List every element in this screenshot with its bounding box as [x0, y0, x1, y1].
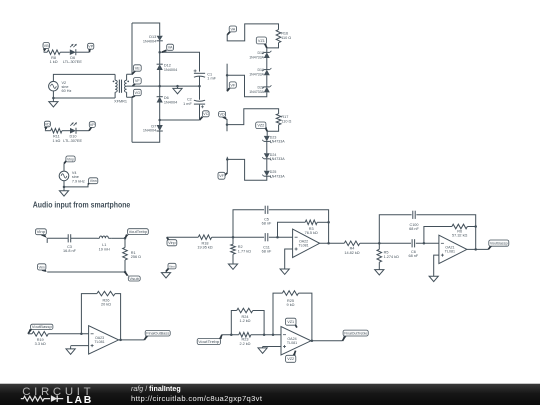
svg-text:VE: VE: [135, 66, 141, 70]
LED D6: [63, 44, 82, 64]
wire: [226, 119, 228, 131]
net flag Vinn (filter): [38, 264, 48, 272]
svg-text:VZ2: VZ2: [287, 357, 294, 361]
wire: [60, 51, 70, 53]
diode D6 (bridge): [157, 96, 178, 104]
wire: [379, 215, 411, 244]
capacitor C2: [183, 98, 205, 109]
wire: [266, 75, 268, 87]
svg-text:LAB: LAB: [67, 395, 93, 405]
wire: [48, 333, 88, 335]
svg-text:68 nF: 68 nF: [262, 222, 272, 226]
net flag VoutBassp: [488, 240, 509, 249]
svg-text:R19: R19: [37, 338, 44, 342]
svg-text:1 mF: 1 mF: [207, 77, 216, 81]
op-amp OA24: [281, 327, 311, 355]
node junction: [232, 236, 235, 239]
resistor R26: [97, 291, 115, 306]
net flag Vinn (stage): [166, 263, 176, 271]
inductor L1: [97, 236, 111, 251]
wire: [253, 311, 264, 335]
svg-text:76.5 kΩ: 76.5 kΩ: [305, 231, 318, 235]
svg-text:Vinn: Vinn: [90, 179, 97, 183]
resistor R25: [282, 291, 298, 307]
wire: [299, 293, 312, 341]
wire: [251, 334, 281, 336]
ground: [59, 187, 68, 196]
wire: [266, 58, 268, 70]
svg-text:1.274 kΩ: 1.274 kΩ: [384, 255, 399, 259]
net flag VD (zener row 2): [219, 111, 227, 120]
svg-text:TL081: TL081: [298, 243, 308, 247]
node junction: [423, 242, 426, 245]
svg-text:VP: VP: [90, 123, 96, 127]
node junction: [198, 85, 201, 88]
svg-text:VP: VP: [88, 45, 94, 49]
svg-text:VoutBassp: VoutBassp: [490, 241, 508, 245]
zener diode D19: [249, 68, 271, 77]
wire: [159, 41, 161, 64]
svg-text:VC: VC: [203, 112, 209, 116]
node junction: [52, 97, 55, 100]
capacitor C1: [194, 69, 217, 80]
footer bar with CircuitLab logo and url: [0, 383, 540, 405]
wire: [266, 159, 268, 171]
net flag VF (zener row 2): [218, 172, 227, 179]
wire: [132, 23, 160, 36]
wire: [233, 210, 264, 237]
net flag VZ1 (supply): [285, 318, 297, 327]
wire: [231, 311, 236, 335]
wire: [44, 51, 48, 53]
resistor R8: [47, 50, 60, 64]
svg-text:VD: VD: [45, 122, 51, 126]
wire: [378, 243, 380, 249]
net flag VB: [43, 43, 49, 53]
node junction: [272, 333, 275, 336]
wire: [28, 333, 32, 335]
wire: [71, 345, 89, 347]
zener diode D20: [249, 85, 271, 94]
node junction: [124, 271, 127, 274]
resistor R11: [51, 128, 62, 142]
svg-text:rafg / finalInteg: rafg / finalInteg: [131, 385, 181, 393]
zener diode D25: [262, 170, 285, 178]
resistor R2: [231, 244, 251, 254]
capacitor C5: [262, 206, 272, 226]
svg-text:1 mF: 1 mF: [183, 102, 192, 106]
svg-text:XFMR1: XFMR1: [114, 99, 127, 103]
diode D12: [157, 64, 178, 72]
svg-text:1N4004: 1N4004: [164, 101, 177, 105]
node junction: [276, 236, 279, 239]
wire: [76, 51, 90, 53]
svg-text:16.8 nF: 16.8 nF: [63, 249, 77, 253]
svg-text:256 Ω: 256 Ω: [131, 255, 141, 259]
net flag VP: [88, 43, 94, 52]
svg-text:2.2 kΩ: 2.2 kΩ: [239, 342, 250, 346]
wire: [378, 262, 380, 269]
resistor R5: [377, 249, 399, 262]
op-amp OA22: [293, 229, 320, 257]
svg-text:Vinn: Vinn: [169, 265, 175, 269]
wire: [159, 70, 161, 97]
svg-text:VD: VD: [219, 113, 225, 117]
wire: [62, 130, 70, 132]
wire: [160, 119, 200, 121]
svg-text:1N4004: 1N4004: [143, 129, 156, 133]
svg-text:VG: VG: [135, 91, 141, 95]
wire: [467, 248, 488, 250]
resistor R16: [276, 30, 291, 43]
net flag VF (zener row 1): [227, 82, 236, 91]
svg-text:19.95 kΩ: 19.95 kΩ: [197, 246, 212, 250]
wire: [267, 43, 279, 53]
node junction: [378, 242, 381, 245]
wire: [199, 105, 201, 120]
svg-text:Vinp: Vinp: [37, 230, 46, 234]
wire: [233, 236, 264, 238]
svg-text:1N4733A: 1N4733A: [249, 90, 264, 94]
net flag VD: [44, 121, 50, 131]
svg-text:110 Ω: 110 Ω: [281, 36, 291, 40]
resistor R1: [123, 248, 141, 260]
svg-text:FinalOutTreble: FinalOutTreble: [344, 331, 367, 335]
node junction: [158, 85, 161, 88]
wire: [212, 236, 233, 238]
wire: [266, 141, 268, 153]
wire: [320, 242, 345, 244]
wire: [267, 125, 278, 136]
wire: [81, 294, 97, 334]
svg-text:VZ2: VZ2: [257, 124, 264, 128]
net flag VoutBassp (in): [28, 324, 53, 334]
svg-text:LTL-307EE: LTL-307EE: [63, 60, 82, 64]
ground: [49, 98, 58, 107]
svg-text:Vsub: Vsub: [129, 277, 139, 281]
resistor R18: [197, 235, 212, 250]
wire: [127, 97, 132, 142]
wire: [127, 23, 132, 74]
svg-text:20 kΩ: 20 kΩ: [101, 303, 111, 307]
ground: [228, 264, 237, 269]
svg-text:68 nF: 68 nF: [409, 227, 419, 231]
svg-text:1N4004: 1N4004: [143, 39, 156, 43]
net flag VC: [200, 111, 210, 120]
net flag VP2: [89, 122, 95, 131]
node junction: [80, 333, 83, 336]
svg-text:VA: VA: [168, 46, 173, 50]
svg-text:VZ1: VZ1: [287, 320, 294, 324]
wire: [63, 164, 65, 172]
net flag FinalOutBass: [144, 330, 170, 340]
net flag VF: [132, 78, 141, 87]
wire: [53, 91, 115, 98]
net flag FinalOutTreble: [343, 330, 369, 341]
section title: [33, 199, 131, 209]
node junction: [474, 225, 477, 228]
wire: [273, 293, 282, 335]
zener diode D24: [262, 153, 285, 161]
wire: [467, 226, 475, 228]
svg-text:57.32 kΩ: 57.32 kΩ: [452, 234, 467, 238]
svg-text:1 kΩ: 1 kΩ: [50, 60, 58, 64]
wire: [160, 52, 200, 71]
svg-text:7.9 kHz: 7.9 kHz: [72, 179, 85, 183]
capacitor C3: [63, 234, 77, 253]
wire: [263, 346, 281, 348]
wire: [285, 249, 293, 269]
wire: [53, 74, 115, 81]
wire: [159, 103, 161, 126]
net flag VZ1: [256, 37, 267, 48]
wire: [434, 255, 439, 276]
svg-text:1N4004: 1N4004: [164, 68, 177, 72]
ground: [161, 271, 170, 278]
svg-text:VoutTrebp: VoutTrebp: [129, 230, 148, 234]
svg-text:60 Hz: 60 Hz: [62, 89, 72, 93]
svg-text:1N4733A: 1N4733A: [270, 175, 285, 179]
svg-text:19 mH: 19 mH: [99, 247, 110, 251]
net flag Vinn (source): [88, 178, 98, 185]
net flag VA: [162, 44, 174, 52]
net flag Vinp (source): [64, 156, 75, 164]
node junction: [263, 333, 266, 336]
wire: [227, 159, 266, 180]
svg-text:VZ1: VZ1: [258, 39, 265, 43]
svg-text:TL081: TL081: [287, 341, 297, 345]
transformer XFMR1: [113, 74, 129, 103]
node junction: [327, 221, 330, 224]
svg-text:68 nF: 68 nF: [409, 254, 419, 258]
node junction: [226, 158, 229, 161]
svg-text:68 nF: 68 nF: [262, 250, 272, 254]
ground: [429, 276, 438, 281]
svg-text:VoutTrebp: VoutTrebp: [198, 340, 219, 344]
svg-text:1 kΩ: 1 kΩ: [52, 139, 60, 143]
node junction: [119, 339, 122, 342]
wire: [64, 181, 88, 187]
node junction: [327, 242, 330, 245]
zener diode D23: [262, 135, 285, 143]
wire: [199, 76, 201, 99]
svg-text:Vinp: Vinp: [168, 241, 176, 245]
wire: [269, 236, 293, 238]
resistor R24: [237, 308, 253, 323]
wire: [227, 109, 279, 125]
svg-text:9 kΩ: 9 kΩ: [287, 303, 295, 307]
svg-text:http://circuitlab.com/c8ua2gxp: http://circuitlab.com/c8ua2gxp7q3vt: [131, 394, 263, 403]
wire: [232, 237, 234, 244]
node junction: [311, 340, 314, 343]
resistor R19: [32, 332, 48, 347]
resistor R4: [344, 241, 360, 255]
net flag VoutTrebp (in): [197, 335, 222, 345]
wire: [115, 294, 121, 340]
zener diode D18: [249, 51, 271, 60]
ground: [280, 269, 289, 274]
svg-text:TL081: TL081: [445, 250, 455, 254]
node junction: [226, 74, 229, 77]
ground: [66, 346, 75, 354]
wire: [124, 260, 126, 272]
wire: [222, 334, 239, 336]
svg-text:1N4733A: 1N4733A: [249, 73, 264, 77]
resistor R23: [239, 332, 251, 346]
svg-text:R16: R16: [281, 31, 288, 35]
wire: [47, 238, 68, 243]
wire: [47, 271, 125, 273]
svg-text:FinalOutBass: FinalOutBass: [146, 332, 169, 336]
wire: [232, 254, 234, 264]
node VC junction: [158, 119, 161, 122]
wire: [424, 227, 452, 244]
svg-text:110 Ω: 110 Ω: [281, 120, 291, 124]
net flag VE: [132, 65, 141, 75]
wire stub: [226, 157, 228, 173]
capacitor C6: [409, 239, 419, 258]
net flag VZ2: [256, 122, 268, 131]
wire: [269, 210, 329, 244]
wire: [124, 238, 126, 247]
svg-text:VA: VA: [231, 27, 236, 31]
svg-text:Vinp: Vinp: [67, 157, 74, 161]
net flag VoutTrebp: [125, 229, 148, 239]
diode D7: [143, 124, 163, 132]
node junction: [474, 248, 477, 251]
svg-text:R17: R17: [281, 115, 288, 119]
svg-text:VF: VF: [230, 83, 236, 87]
wire: [227, 24, 278, 41]
capacitor C11: [262, 233, 272, 253]
svg-text:Audio input from smartphone: Audio input from smartphone: [33, 199, 131, 209]
wire: [317, 221, 328, 223]
wire: [227, 75, 267, 97]
ground: [375, 270, 384, 275]
net flag Vinp (stage): [167, 237, 177, 246]
voltage source V2: [49, 81, 72, 93]
svg-text:1N4733A: 1N4733A: [249, 55, 264, 59]
wire: [111, 237, 125, 239]
svg-text:TL081: TL081: [94, 340, 104, 344]
wire center tap line: [127, 85, 200, 87]
svg-text:1N4733A: 1N4733A: [270, 140, 285, 144]
resistor R6: [452, 224, 468, 237]
svg-text:3.3 kΩ: 3.3 kΩ: [35, 342, 46, 346]
resistor R17: [276, 114, 291, 125]
resistor R3: [305, 220, 318, 235]
net flag VZ2 (supply): [286, 351, 296, 363]
wire: [45, 130, 51, 132]
node junction: [230, 333, 233, 336]
ground: [258, 347, 267, 354]
wire: [71, 237, 97, 239]
net flag Vsub: [125, 272, 140, 281]
diode D13: [143, 35, 163, 43]
wire: [76, 130, 89, 132]
node junction: [124, 237, 127, 240]
wire: [167, 236, 199, 238]
ground: [173, 86, 182, 94]
node VA junction: [158, 51, 161, 54]
svg-text:1.77 kΩ: 1.77 kΩ: [238, 249, 251, 253]
net flag Vinp (filter): [36, 229, 48, 239]
op-amp OA21: [439, 235, 467, 263]
svg-text:VoutBassp: VoutBassp: [32, 325, 52, 329]
wire stub: [226, 64, 228, 91]
svg-text:VB: VB: [44, 44, 50, 48]
net flag VA (zener row 1): [227, 26, 236, 35]
op-amp OA23: [89, 326, 119, 354]
wire: [360, 242, 380, 244]
wire: [132, 131, 160, 142]
wire: [416, 242, 439, 244]
svg-text:Vinn: Vinn: [39, 265, 45, 269]
svg-text:VF: VF: [219, 174, 225, 178]
svg-text:14.82 kΩ: 14.82 kΩ: [344, 251, 359, 255]
svg-text:1.2 kΩ: 1.2 kΩ: [239, 319, 250, 323]
net flag VG: [132, 89, 141, 97]
svg-text:LTL-307EE: LTL-307EE: [63, 139, 82, 143]
wire: [311, 340, 343, 342]
wire: [278, 222, 306, 237]
node junction: [226, 123, 229, 126]
node junction: [63, 186, 66, 189]
wire: [119, 339, 145, 341]
node junction: [176, 85, 179, 88]
wire: [379, 242, 411, 244]
LED D10: [63, 123, 82, 143]
svg-text:VF: VF: [135, 79, 141, 83]
capacitor C100: [409, 211, 419, 231]
voltage source V4: [59, 171, 85, 183]
svg-text:1N4733A: 1N4733A: [270, 157, 285, 161]
wire: [416, 215, 475, 250]
